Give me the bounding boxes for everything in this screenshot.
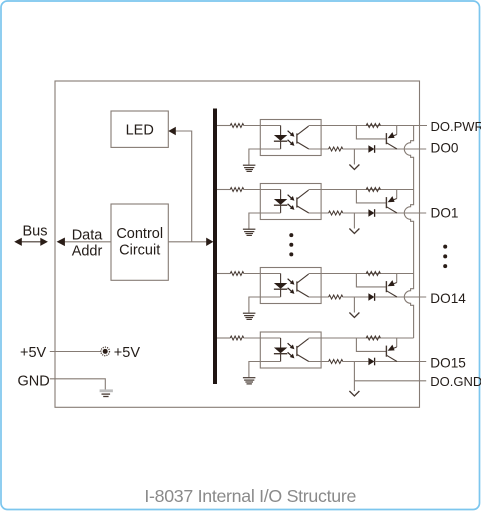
control circuit box U1 (111, 204, 168, 280)
resistor R4b (329, 360, 343, 364)
resistor R3b (329, 295, 343, 299)
diode D1 (368, 145, 374, 153)
optocoupler U2 LED (274, 190, 287, 214)
isolation barrier bar (213, 109, 217, 385)
wire transistor base network row 3 (356, 274, 386, 287)
resistor R2b (329, 211, 343, 215)
optocoupler U1 LED (274, 126, 287, 150)
optocoupler U1 light arrows (288, 131, 295, 146)
transistor Q2 PNP (386, 190, 397, 214)
wire GND (50, 379, 106, 390)
wire isolation bar to input resistor row 3 (217, 273, 230, 275)
ground field arrow row 4 (349, 391, 359, 396)
wire diode to transistor collector row 4 (375, 361, 427, 363)
optocoupler U4 light arrows (288, 343, 295, 358)
ground logic GND symbol (100, 391, 113, 397)
wire isolation bar to input resistor row 1 (217, 125, 230, 127)
wire data/addr arrow into control circuit (57, 238, 111, 247)
ground field arrow row 2 (349, 213, 359, 234)
resistor R3a input (230, 272, 244, 276)
wire phototransistor emitter row 1 (309, 148, 329, 150)
resistor R4a input (230, 336, 244, 340)
transistor Q1 PNP (386, 126, 397, 150)
node +5V bullseye (101, 347, 110, 356)
optocoupler U4 LED (274, 338, 287, 362)
resistor R1b (329, 147, 343, 151)
resistor R1a input (230, 124, 244, 128)
ground earth symbol row 1 (243, 165, 256, 171)
wire LED cathode out of box row 2 (249, 213, 281, 229)
wire resistor to diode row 4 (343, 361, 369, 363)
wire DO.GND rail (354, 380, 426, 382)
ground field arrow row 3 (349, 297, 359, 318)
resistor R1c base-emitter (366, 124, 380, 128)
svg-text:DO.GND: DO.GND (430, 374, 481, 389)
svg-text:DO14: DO14 (430, 291, 466, 306)
wire isolation bar to input resistor row 4 (217, 337, 230, 339)
svg-text:+5V: +5V (20, 345, 47, 361)
diode D3 (368, 293, 374, 301)
transistor Q4 PNP (386, 338, 397, 362)
optocoupler U3 phototransistor (297, 274, 309, 297)
wire phototransistor collector to output stage row 4 (309, 337, 414, 339)
ellipsis dots middle (289, 233, 293, 256)
svg-text:Circuit: Circuit (119, 242, 160, 258)
svg-text:Bus: Bus (23, 224, 48, 240)
wire resistor to optocoupler row 4 (244, 337, 281, 339)
optocoupler U1 box (260, 120, 321, 156)
transistor Q3 PNP (386, 274, 397, 298)
optocoupler U4 phototransistor (297, 339, 309, 362)
wire phototransistor emitter row 4 (309, 361, 329, 363)
wire LED feedback from control bus up to LED box (168, 127, 191, 242)
ground earth symbol row 3 (243, 313, 256, 319)
optocoupler U2 phototransistor (297, 190, 309, 213)
node Data Addr labels (72, 227, 104, 259)
wire phototransistor collector to output stage row 1 (309, 125, 427, 127)
wire LED cathode out of box row 3 (249, 297, 281, 313)
svg-text:DO0: DO0 (431, 141, 459, 156)
wire diode to transistor collector row 3 (375, 296, 427, 298)
wire phototransistor collector to output stage row 2 (309, 189, 414, 191)
bus double arrow (14, 238, 48, 246)
ground field arrow row 1 (349, 149, 359, 170)
diode D4 (368, 358, 374, 366)
resistor R3c base-emitter (366, 272, 380, 276)
wire +5V (50, 351, 101, 353)
wire resistor to diode row 3 (343, 296, 369, 298)
wire phototransistor collector to output stage row 3 (309, 273, 414, 275)
optocoupler U2 light arrows (288, 195, 295, 210)
optocoupler U3 box (260, 268, 321, 304)
optocoupler U3 light arrows (288, 279, 295, 294)
svg-text:Data: Data (72, 227, 104, 243)
wire DO.PWR rail with hops (404, 126, 413, 339)
optocoupler U2 box (260, 184, 321, 220)
svg-text:+5V: +5V (114, 345, 141, 361)
wire control circuit to isolation barrier with arrow (168, 238, 213, 246)
wire resistor to optocoupler row 1 (244, 125, 281, 127)
wire resistor to diode row 2 (343, 212, 369, 214)
optocoupler U4 box (260, 332, 321, 368)
svg-text:Addr: Addr (72, 244, 103, 260)
optocoupler U3 LED (274, 274, 287, 298)
wire resistor to optocoupler row 3 (244, 273, 281, 275)
svg-text:DO1: DO1 (431, 205, 459, 220)
svg-text:LED: LED (126, 123, 154, 139)
wire transistor base network row 1 (356, 126, 386, 139)
LED box U2 (111, 111, 168, 147)
wire diode to transistor collector row 2 (375, 212, 427, 214)
ground earth symbol row 2 (243, 229, 256, 235)
resistor R2a input (230, 188, 244, 192)
svg-text:I-8037 Internal I/O Structure: I-8037 Internal I/O Structure (144, 486, 356, 506)
module box (55, 81, 420, 407)
wire resistor to diode row 1 (343, 148, 369, 150)
diode D2 (368, 209, 374, 217)
ground earth symbol row 4 (243, 378, 256, 384)
ellipsis dots right (443, 245, 447, 269)
wire transistor base network row 2 (356, 190, 386, 203)
resistor R2c base-emitter (366, 188, 380, 192)
wire LED cathode out of box row 4 (249, 362, 281, 378)
optocoupler U1 phototransistor (297, 126, 309, 149)
wire isolation bar to input resistor row 2 (217, 189, 230, 191)
wire diode to transistor collector row 1 (375, 148, 427, 150)
svg-text:DO.PWR: DO.PWR (431, 119, 481, 134)
svg-text:DO15: DO15 (430, 356, 466, 371)
wire phototransistor emitter row 3 (309, 296, 329, 298)
wire resistor to optocoupler row 2 (244, 189, 281, 191)
wire LED cathode out of box row 1 (249, 149, 281, 165)
svg-text:Control: Control (116, 226, 163, 242)
wire transistor base network row 4 (356, 338, 386, 351)
wire DO.GND drop row 4 (353, 362, 355, 392)
svg-text:GND: GND (18, 373, 50, 389)
wire phototransistor emitter row 2 (309, 212, 329, 214)
resistor R4c base-emitter (366, 336, 380, 340)
